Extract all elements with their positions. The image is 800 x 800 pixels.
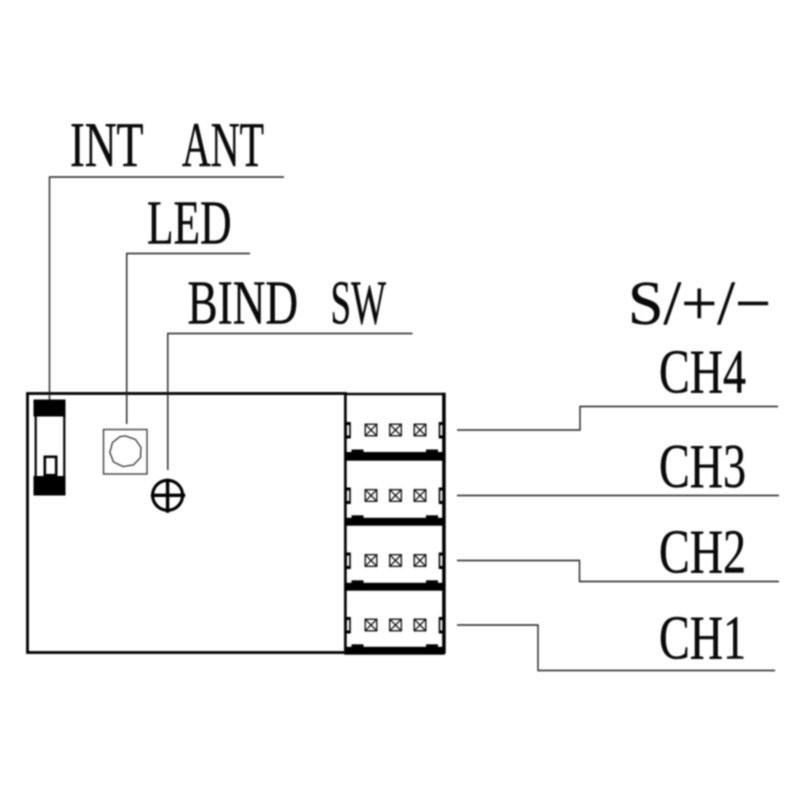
connector column right edge — [442, 393, 445, 654]
antenna INT ANT top pad — [34, 400, 66, 417]
connector CH2 block — [346, 525, 444, 590]
connector CH4 block — [346, 394, 444, 459]
svg-text:S/+/−: S/+/− — [628, 270, 771, 338]
connector CH1 block — [346, 590, 444, 654]
LED lens polygon — [110, 436, 141, 467]
svg-text:INT: INT — [70, 110, 144, 180]
svg-text:LED: LED — [147, 190, 232, 258]
leader line BIND SW — [168, 334, 413, 471]
svg-text:CH2: CH2 — [659, 519, 746, 587]
leader line INT ANT — [50, 177, 285, 400]
label INT ANT — [70, 110, 264, 180]
antenna bottom pad — [34, 476, 66, 496]
bind switch cross vertical — [166, 479, 169, 513]
receiver body box — [28, 394, 346, 653]
leader line LED — [127, 254, 250, 425]
svg-text:CH4: CH4 — [659, 339, 746, 407]
svg-text:ANT: ANT — [182, 110, 264, 180]
wire CH2 — [457, 561, 779, 582]
svg-text:CH3: CH3 — [659, 433, 746, 501]
connector CH3 block — [346, 460, 444, 525]
svg-text:SW: SW — [331, 270, 387, 338]
wire CH1 — [457, 625, 775, 671]
svg-text:CH1: CH1 — [659, 605, 746, 673]
bind switch crosshair circle — [153, 480, 183, 510]
bind switch cross horizontal — [151, 494, 185, 497]
label BIND SW — [188, 270, 387, 338]
antenna inner element — [45, 457, 56, 475]
svg-text:BIND: BIND — [188, 270, 299, 338]
antenna left wall — [35, 417, 37, 477]
wire CH4 — [457, 407, 778, 431]
antenna right wall — [63, 417, 65, 477]
wire CH3 — [457, 495, 779, 497]
LED body square — [104, 430, 148, 475]
